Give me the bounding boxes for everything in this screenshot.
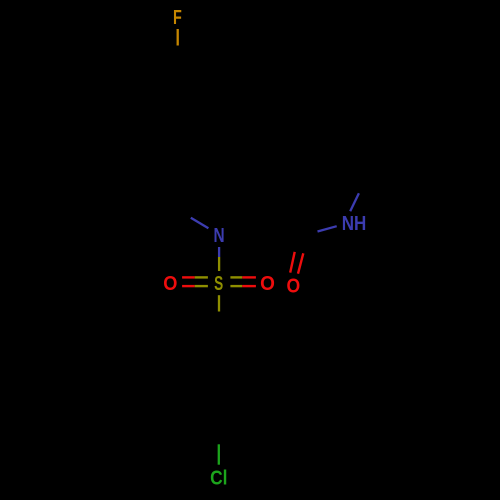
svg-text:N: N [213,224,224,246]
atom NH [342,211,367,234]
C=O left line oxygen half [290,252,295,273]
atom S [214,272,223,294]
bond N-S sulfur half [218,257,220,271]
bond C-Cl chlorine half [218,444,220,464]
bond S-C aryl, sulfur half [218,295,220,311]
S=O right upper line sulfur half [230,276,242,278]
C=O right line oxygen half [298,253,303,273]
bond N-S nitrogen half [218,247,220,257]
svg-text:O: O [287,274,301,296]
svg-text:Cl: Cl [210,466,227,488]
atom O carbonyl [287,274,301,296]
S=O left lower line sulfur half [195,285,208,287]
S=O right lower line oxygen half [242,285,256,287]
svg-text:O: O [260,273,275,296]
atom Cl [210,466,227,488]
svg-text:F: F [173,5,182,28]
atom O sulfonyl right [260,273,275,296]
S=O right upper line oxygen half [242,276,256,278]
svg-text:NH: NH [342,211,367,234]
S=O left lower line oxygen half [182,285,195,287]
bond C-NH down-left, nitrogen half [318,226,337,231]
svg-text:S: S [214,272,223,294]
S=O left upper line sulfur half [195,276,208,278]
bond F-C fluorine half [177,29,179,46]
bond C-N upper-left, nitrogen half [191,218,209,228]
svg-text:O: O [163,273,177,295]
S=O right lower line sulfur half [230,285,242,287]
atom O sulfonyl left [163,273,177,295]
bond NH-C upper, nitrogen half [350,193,359,211]
atom N [213,224,224,246]
S=O left upper line oxygen half [182,276,195,278]
atom F [173,5,182,28]
